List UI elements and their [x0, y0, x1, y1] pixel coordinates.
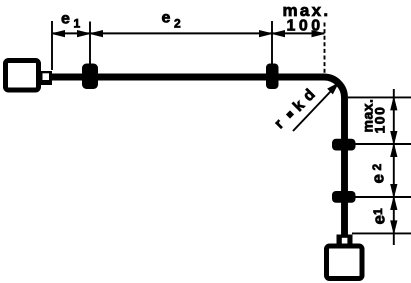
extension line A from bend end y=97	[348, 96, 411, 98]
arrow e2 down (right chain)	[391, 185, 397, 197]
extension line B from clamp 3 y=143.5	[355, 143, 411, 145]
svg-text:100: 100	[372, 106, 388, 134]
clamp 3 on vertical cable	[332, 139, 356, 151]
extension line C from clamp 4 y=197	[355, 196, 411, 198]
svg-text:1: 1	[74, 17, 81, 31]
left junction box	[6, 61, 39, 91]
extension line at box edge x=52	[51, 21, 53, 70]
svg-text:2: 2	[370, 164, 384, 171]
bottom junction box	[327, 246, 363, 279]
extension line at clamp 1 x=90	[89, 22, 91, 65]
svg-text:e: e	[61, 11, 70, 28]
svg-text:e: e	[162, 10, 171, 27]
extension line D from bottom connector y=232.7	[352, 232, 411, 234]
label max. 100 (rotated, right chain)	[360, 99, 388, 134]
clamp 1 on horizontal cable	[82, 64, 98, 90]
label r = k d (rotated 45)	[271, 86, 319, 132]
arrow e1 left	[53, 31, 65, 37]
arrow e1 right	[78, 31, 90, 37]
arrow e2 right	[260, 31, 272, 37]
top dimension line	[52, 32, 325, 34]
cable run (horizontal, bend r, vertical)	[52, 77, 345, 235]
right dimension line (vertical)	[393, 89, 395, 245]
arrow max100 down (right chain)	[391, 132, 397, 144]
label max. 100 (top)	[283, 1, 331, 35]
svg-text:e: e	[370, 215, 389, 224]
svg-text:100: 100	[287, 18, 324, 35]
arrow e1 up (right chain)	[391, 198, 397, 210]
left box connector stub	[41, 71, 52, 85]
clamp 2 on horizontal cable	[266, 64, 279, 90]
svg-text:2: 2	[174, 17, 181, 31]
label e2 (top)	[162, 10, 182, 31]
extension line at clamp 2 x=272	[271, 21, 273, 64]
label e1 (rotated, right chain)	[370, 208, 389, 225]
arrow max100 left	[273, 31, 285, 37]
bend radius leader arrow	[293, 84, 338, 132]
svg-text:1: 1	[371, 208, 385, 215]
arrow e2 up (right chain)	[391, 145, 397, 157]
arrow e2 left	[91, 31, 103, 37]
arrow e1 down (right chain)	[391, 221, 397, 233]
arrow max100 right	[312, 31, 324, 37]
extension line at bend start x=324 (dashed)	[324, 23, 326, 74]
arrow max100 up (right chain)	[391, 98, 397, 110]
label e2 (rotated, right chain)	[369, 164, 388, 184]
clamp 4 on vertical cable	[332, 191, 356, 203]
svg-text:e: e	[369, 174, 388, 183]
label e1 (top)	[61, 11, 81, 31]
bottom connector stub	[337, 235, 353, 245]
